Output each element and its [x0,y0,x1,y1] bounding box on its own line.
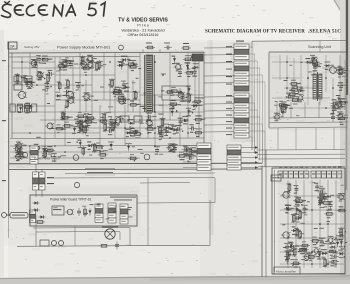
value label [131,70,134,71]
value label [92,144,97,145]
value label [81,67,85,68]
X06 label 5 [333,173,336,176]
value label [16,160,20,161]
transistor VP006 [60,61,69,67]
value label [298,251,301,252]
value label [187,154,193,155]
value label [183,153,188,154]
value label [332,99,337,100]
junction 30 [91,61,93,63]
value label [330,243,336,244]
capacitor CP091 [145,115,153,119]
power resistor PR1 [10,104,15,112]
value label [302,212,306,213]
capacitor CM036 [329,260,337,264]
value label [39,63,43,64]
resistor RP014 [126,63,136,66]
diode DP060 [191,104,198,107]
value label [169,143,175,144]
value label [109,79,115,80]
handwritten title letter S [2,4,12,17]
A12 CRT demagnetizer note [110,197,136,198]
mono stray label 3 [341,247,345,250]
mono junction 14 [335,263,337,265]
value label [288,242,292,243]
junction 31 [109,127,111,129]
value label [334,102,340,103]
value label [130,136,135,137]
value label [299,99,303,100]
resistor RP113 [189,147,192,157]
stray value label 8 [183,100,187,103]
junction 15 [36,84,38,86]
stray value label 47 [103,149,108,152]
stray value label 56 [158,113,163,116]
mono stray label 10 [330,194,334,197]
value label [332,107,336,108]
value label [32,59,38,60]
value label [196,128,202,129]
value label [345,117,348,118]
value label [178,125,181,126]
value label [287,258,290,259]
resistor RM023 [291,262,301,265]
value label [321,249,327,250]
top part label 2 [164,43,170,44]
value label [118,94,124,95]
solder pad [191,126,192,127]
stray value label 10 [140,122,144,125]
scan stray label 9 [317,95,320,98]
value label [190,124,194,125]
value label [331,65,334,66]
value label [111,130,115,131]
stray value label 11 [61,128,66,131]
diode DP015 [131,63,138,66]
value label [293,259,298,260]
value label [163,129,166,130]
capacitor CP034 [76,82,80,90]
note start up switch line2 [87,171,113,174]
solder pad [63,114,64,115]
resistor RM040 [310,240,320,243]
resistor RQ928 [128,157,138,160]
X04b wire 5 [183,167,197,169]
value label [78,126,84,127]
value label [43,157,46,158]
resistor RP039 [66,99,69,109]
capacitor CQ921 [18,149,22,157]
mono junction 9 [327,263,329,265]
connector X13 connector [120,204,128,224]
value label [172,144,178,145]
resistor RP075 [133,133,143,136]
drop to XP1 [35,164,37,172]
solder pad [109,84,110,85]
value label [42,58,45,59]
value label [109,124,114,125]
value label [18,112,21,113]
solder pad [344,246,345,247]
power resistor PR4 [32,104,37,112]
resistor RM024 [300,244,310,247]
value label [117,94,121,95]
circled ref 2 [144,154,150,160]
diode DP013 [120,58,127,61]
mono junction 11 [319,223,321,225]
value label [107,127,114,128]
value label [187,148,192,149]
solder pad [132,62,133,63]
value label [125,129,131,130]
value label [312,237,317,238]
value label [298,87,302,88]
value label [18,149,22,150]
diode DM043 [338,234,345,237]
value label [122,103,126,104]
solder pad [120,64,121,65]
value label [312,61,315,62]
value label [84,92,90,93]
junction 26 [85,119,87,121]
drop to XP2 [41,170,43,173]
resistor RP078 [99,120,109,123]
stray value label 14 [109,124,114,127]
column link left 10 [204,124,234,126]
scan vertical net 4 [318,102,320,118]
solder pad [292,265,293,266]
stray value label 48 [106,111,111,114]
value label [339,206,344,207]
junction 12 [154,132,156,134]
circled ref 1 [73,155,79,161]
X06 pin label 5 [333,166,336,169]
value label [192,102,198,103]
column link right 2 [249,53,255,55]
value label [339,90,342,91]
stray value label 29 [78,121,83,124]
bus to right 2 [258,153,345,155]
value label [297,230,301,231]
value label [26,79,31,80]
X04b wire 2 [183,150,197,152]
value label [317,259,322,260]
value label [135,130,139,131]
margin row label 2 [2,120,6,121]
value label [45,74,49,75]
capacitor CM033 [331,255,339,259]
solder pad [286,207,287,208]
T01 core right [153,55,155,112]
value label [90,96,94,97]
note start up switch line1 [85,169,115,170]
resistor RP073 [80,122,83,132]
scan drop 4 [333,128,335,150]
diode DP049 [123,86,130,89]
solder pad [171,129,172,130]
capacitor C11 [77,208,81,216]
X06 label 3 [322,173,325,176]
value label [68,60,73,61]
resistor RP085 [193,118,203,121]
value label [187,101,191,102]
scan vertical net 2 [290,102,292,118]
value label [334,239,338,240]
solder pad [44,78,45,79]
svg-text:Setting 45V: Setting 45V [24,45,40,49]
value label [22,156,26,157]
+B1 label [47,177,54,178]
transistor VQ953 [86,62,95,68]
value label [176,70,179,71]
solder pad [182,130,183,131]
solder pad [286,97,287,98]
value label [280,109,285,110]
column link right 12 [249,130,265,132]
value label [124,91,129,92]
solder pad [197,153,198,154]
value label [79,130,83,131]
A12 note line2 [114,199,132,202]
value label [127,99,130,100]
value label [64,88,70,89]
value label [292,234,297,235]
switch S11 [52,241,57,246]
solder pad [42,155,43,156]
scan stray label 3 [341,84,345,87]
value label [285,212,288,213]
value label [300,253,303,254]
solder pad [322,202,323,203]
handwritten letter L [26,5,34,16]
PS net H14 [10,151,204,153]
svg-text:SCHEMATIC DIAGRAM OF TV RECEIV: SCHEMATIC DIAGRAM OF TV RECEIVER [205,30,305,35]
mono stray label 22 [297,196,300,199]
diode D11 [88,208,91,215]
PS net H12 [140,94,204,96]
diode DM005 [285,208,292,211]
value label [319,240,323,241]
transistor VP119 [168,145,177,151]
capacitor CP101 [43,149,47,157]
value label [97,150,101,151]
connector X03 connector [234,93,249,138]
power resistor PR3 [24,104,29,112]
value label [57,132,60,133]
value label [80,147,86,148]
mono junction 1 [327,195,329,197]
value label [286,212,289,213]
value label [37,71,41,72]
killer stray label 12 [97,203,101,206]
value label [294,228,298,229]
value label [319,201,323,202]
solder pad [287,188,288,189]
value label [290,259,293,260]
value label [15,153,21,154]
stray value label 28 [133,130,138,133]
value label [287,183,292,184]
value label [313,247,318,248]
transistor VP100 [15,143,24,149]
value label [25,103,30,104]
value label [333,260,338,261]
scan net h6 [322,67,345,69]
value label [84,72,87,73]
value label [331,113,334,114]
value label [344,72,348,73]
value label [339,246,343,247]
solder pad [121,92,122,93]
capacitor CM016 [323,193,327,201]
value label [192,147,196,148]
value label [62,113,66,114]
bundle drop 11 [261,124,263,164]
resistor RP094 [161,117,164,127]
value label [283,112,286,113]
value label [129,119,134,120]
PS net H1 [12,61,55,63]
transistor VS019 [332,104,340,110]
resistor RP047 [135,90,138,100]
mono stray label 9 [334,265,337,268]
value label [113,89,117,90]
value label [313,62,319,63]
value label [101,113,106,114]
column link left 4 [204,75,234,77]
value label [304,253,310,254]
mono stray label 8 [283,246,286,249]
value label [170,151,175,152]
diode DM041 [336,240,339,247]
scan stray label 4 [300,87,303,90]
mono stray label 15 [282,223,285,226]
bundle drop 6 [264,82,266,167]
stray value label 43 [138,148,143,151]
stray value label 38 [189,110,193,113]
resistor RP082 [112,121,115,131]
junction 29 [109,61,111,63]
circled ref T [119,45,124,50]
resistor RP008 [81,56,84,66]
value label [48,149,52,150]
capacitor CM017 [329,201,333,209]
value label [27,88,32,89]
lower link bus 1 [47,177,215,180]
value label [78,147,82,148]
resistor RS002 [287,93,297,96]
column link right 3 [249,60,257,62]
XP2 to board lead [41,190,43,197]
PS net V12 [64,105,66,146]
column pin label b2 [226,102,232,103]
value label [285,205,290,206]
value label [198,105,202,106]
X06 label 1 [312,173,315,176]
mono stray label 20 [332,261,335,264]
transistor VP079 [114,118,123,124]
resistor RP048 [128,104,138,107]
PS net V4 [91,57,93,120]
scan net v1 [279,55,281,80]
value label [71,61,74,62]
value label [293,185,298,186]
value label [60,111,66,112]
transformer T02 winding B [319,74,322,99]
value label [92,151,96,152]
mono stray label 7 [316,255,319,258]
resistor RP010 [57,65,67,68]
capacitor CM013 [320,194,324,202]
capacitor CS025 [278,109,286,113]
bundle drop 10 [259,117,261,160]
value label [305,260,308,261]
value label [116,124,120,125]
diode DM044 [340,239,343,246]
handwritten digit 1 [101,3,105,17]
killer stray label 2 [53,206,57,209]
diode DM047 [338,252,345,255]
value label [147,119,151,120]
stray value label 40 [59,66,62,69]
value label [33,67,37,68]
scan stray label 16 [300,61,303,64]
value label [342,98,346,99]
mono net v4 [311,180,313,268]
margin row label 3 [2,180,6,181]
value label [84,100,88,101]
stray value label 35 [93,121,98,124]
scan stray label 6 [289,64,292,67]
value label [169,132,172,133]
column pin label b4 [226,115,232,116]
value label [329,247,333,248]
column link left 9 [204,117,234,119]
value label [294,193,297,194]
value label [81,85,84,86]
X05 label 4 [295,173,298,176]
value label [168,144,174,145]
value label [113,127,117,128]
stray value label 21 [86,134,89,137]
killer stray label 4 [129,216,133,219]
capacitor CP029 [38,72,42,80]
solder pad [274,118,275,119]
value label [43,63,47,64]
transistor V05 [45,123,54,129]
resistor RP044 [116,97,126,100]
value label [195,115,201,116]
junction 17 [154,111,156,113]
solder pad [302,249,303,250]
value label [172,94,175,95]
value label [319,188,325,189]
value label [175,112,178,113]
value label [287,100,290,101]
value label [312,57,318,58]
value label [66,87,70,88]
regulator sub-box [162,86,188,100]
capacitor CP033 [24,75,28,83]
value label [132,60,137,61]
value label [320,202,323,203]
value label [132,68,136,69]
X05 label 1 [279,173,282,176]
value label [57,124,61,125]
value label [114,119,117,120]
resistor RP043 [111,92,121,95]
capacitor CP116 [182,148,190,152]
